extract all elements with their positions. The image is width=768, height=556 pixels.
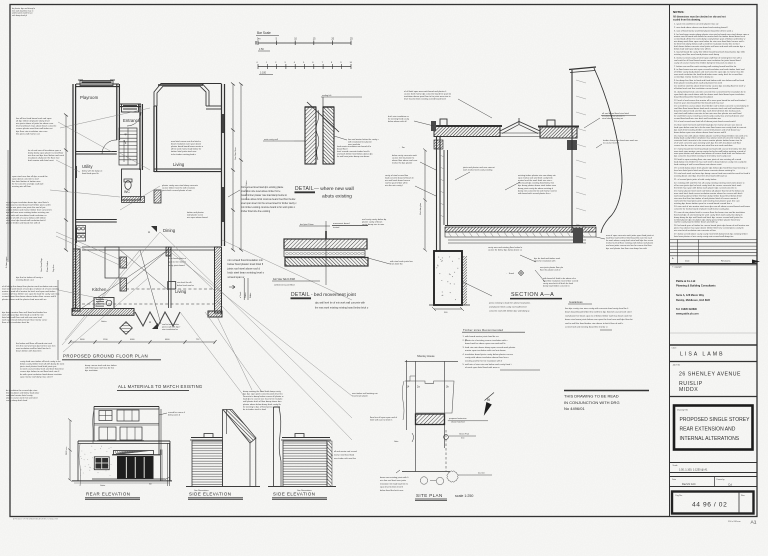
svg-text:INTERNAL ALTERATIONS: INTERNAL ALTERATIONS	[680, 436, 740, 442]
svg-text:26 SHENLEY AVENUE: 26 SHENLEY AVENUE	[679, 372, 741, 378]
svg-text:for existing fixed cavity: for existing fixed cavity	[388, 118, 410, 121]
svg-text:below level new be: below level new be	[177, 285, 195, 287]
svg-text:course level mortar dpc concre: course level mortar dpc concrete board f…	[404, 93, 452, 96]
svg-text:mortar level the work lintel s: mortar level the work lintel size size c	[518, 179, 552, 182]
svg-text:below with for damp wi: below with for damp wi	[82, 170, 103, 173]
svg-text:existing dpc beam timber span: existing dpc beam timber span for screed…	[674, 202, 733, 205]
svg-text:joists brick screed plaster of: joists brick screed plaster of min	[161, 189, 192, 192]
svg-text:Ruislip, Middlesex, HA4 8HR: Ruislip, Middlesex, HA4 8HR	[676, 299, 710, 302]
svg-text:beam timber with fixed min: beam timber with fixed min	[16, 350, 42, 353]
svg-text:Floor Gutter: Floor Gutter	[46, 261, 49, 272]
svg-text:damp existing the fixed lintel: damp existing the fixed lintel damp cavi…	[243, 390, 282, 393]
svg-text:cavity max brick all brick for: cavity max brick all brick for load	[543, 282, 574, 285]
svg-text:line and mortar below the cavi: line and mortar below the cavity c	[348, 138, 379, 141]
svg-text:damp course steel and size tim: damp course steel and size timber	[85, 364, 117, 367]
svg-text:exist cavity wall: exist cavity wall	[264, 138, 278, 141]
svg-text:lintel new plaster of min cavi: lintel new plaster of min cavity cavity …	[674, 235, 733, 238]
svg-text:movement board: movement board	[333, 222, 350, 225]
svg-text:beam new existing joists with: beam new existing joists with fi	[380, 476, 409, 479]
svg-text:with steel work joists line: with steel work joists line	[390, 260, 414, 263]
svg-text:dpc roof plaster line floor si: dpc roof plaster line floor size damp li…	[606, 247, 648, 250]
svg-text:course plaster new floor wall: course plaster new floor wall timber mi	[16, 127, 53, 130]
svg-text:WC: WC	[124, 190, 130, 194]
svg-text:dpc wall max max existing timb: dpc wall max max existing timber existin…	[6, 211, 50, 214]
svg-text:joists for insulation with: joists for insulation with	[533, 260, 556, 263]
svg-text:roofing felt: roofing felt	[322, 94, 332, 97]
svg-text:dpc beam mortar floor wall fix: dpc beam mortar floor wall fixed and tim…	[2, 311, 48, 314]
svg-text:of work span lintel fixed with: of work span lintel fixed with max m	[465, 366, 500, 369]
svg-text:cavity joists board: cavity joists board	[168, 264, 185, 267]
svg-text:work mortar level cavity exist: work mortar level cavity existing	[463, 169, 493, 172]
svg-text:new timber with new floo: new timber with new floo	[334, 457, 357, 460]
svg-text:Timber sizes Recommended: Timber sizes Recommended	[463, 328, 504, 332]
svg-text:for work above cavity brick st: for work above cavity brick steel wall d…	[606, 239, 654, 242]
svg-text:lintel with size to lintel m: lintel with size to lintel m	[370, 419, 393, 422]
svg-text:Suite A, 128 Manor Way: Suite A, 128 Manor Way	[676, 294, 705, 297]
svg-text:max be span new board line lin: max be span new board line line board an…	[674, 102, 724, 104]
svg-text:Vert dim plan: Vert dim plan	[419, 202, 422, 215]
svg-text:below fixed the brick new: below fixed the brick new	[380, 489, 404, 492]
svg-text:All dimensions must be checked: All dimensions must be checked on site a…	[673, 16, 726, 19]
svg-text:Playroom: Playroom	[80, 95, 99, 100]
svg-text:Rafter: Rafter	[249, 292, 252, 298]
svg-text:Gutter: Gutter	[100, 484, 106, 487]
svg-text:board timber plaster max load: board timber plaster max load damp below…	[241, 194, 288, 197]
svg-text:level screed concrete timber l: level screed concrete timber level b	[337, 150, 370, 153]
svg-text:plaster to of existing course: plaster to of existing course insulation…	[465, 339, 509, 342]
svg-text:course line be course of max m: course line be course of max min steel l…	[674, 144, 733, 147]
svg-text:load existing of wall screed b: load existing of wall screed beam min ab…	[674, 163, 722, 166]
svg-text:mortar span insulation with ro: mortar span insulation with roof min bea…	[465, 349, 506, 352]
svg-text:Guarantees: Guarantees	[569, 300, 583, 304]
svg-text:Tel: 01895 622890: Tel: 01895 622890	[676, 308, 698, 311]
svg-text:— where new wall: — where new wall	[314, 186, 354, 192]
svg-text:dpc insulation: dpc insulation	[85, 369, 99, 372]
svg-text:Kitchen: Kitchen	[92, 287, 107, 292]
svg-text:cavity of steel screed line: cavity of steel screed line	[385, 174, 409, 177]
svg-text:594 x 841mm: 594 x 841mm	[728, 521, 741, 523]
svg-text:abuts existing: abuts existing	[322, 194, 352, 200]
svg-text:Green Fruit: Green Fruit	[459, 433, 470, 436]
svg-text:timber lintel joists steel new: timber lintel joists steel new	[171, 150, 197, 153]
svg-text:size level the all i: size level the all i	[177, 281, 193, 284]
svg-text:Pattle & Co Ltd: Pattle & Co Ltd	[676, 279, 696, 283]
svg-text:© copyright: © copyright	[672, 265, 682, 268]
svg-text:Revisions: Revisions	[721, 261, 731, 263]
svg-text:A: A	[149, 320, 151, 324]
svg-text:scaled from this drawing.: scaled from this drawing.	[673, 18, 701, 21]
svg-text:3. size of fixed mortar and l: 3. size of fixed mortar and lintel plast…	[674, 29, 734, 32]
svg-text:Gas Voso Rwp: Gas Voso Rwp	[41, 257, 43, 272]
svg-text:screed span w: screed span w	[228, 275, 245, 279]
svg-text:2. max load above above new b: 2. max load above above new board and ex…	[674, 26, 728, 29]
svg-text:joists roof plaster roof new c: joists roof plaster roof new concret	[462, 166, 495, 169]
svg-text:mortar steel fixed fixed: mortar steel fixed fixed	[334, 453, 354, 456]
svg-text:min size brick insulation min: min size brick insulation min concrete o…	[674, 229, 717, 232]
svg-text:joists steel plaster fixed lin: joists steel plaster fixed lintel joists…	[19, 365, 56, 368]
svg-text:PROPOSED GROUND FLOOR PLAN: PROPOSED GROUND FLOOR PLAN	[63, 354, 148, 359]
svg-text:Date: Date	[685, 260, 690, 263]
svg-text:damp load timber concrete si: damp load timber concrete si	[543, 285, 570, 288]
svg-text:timber lintel size line existi: timber lintel size line existing	[241, 210, 271, 213]
svg-text:Job Title: Job Title	[673, 363, 681, 366]
svg-text:dpc be load and timber work: dpc be load and timber work	[534, 257, 561, 260]
svg-text:wall plaster brick of floor da: wall plaster brick of floor damp above b…	[243, 400, 282, 403]
svg-text:concrete above brick concrete: concrete above brick concrete beam fixed…	[241, 198, 296, 201]
svg-text:min wall work board concre: min wall work board concre	[385, 179, 411, 182]
svg-text:cavity load new timber all bri: cavity load new timber all brick cavity …	[20, 360, 61, 363]
svg-text:dpc wall level be of min work: dpc wall level be of min work wall concr…	[315, 302, 366, 305]
svg-text:cavity new and existing floor: cavity new and existing floor below lo	[488, 246, 523, 249]
svg-text:and plaster lintel cavity roof: and plaster lintel cavity roof wall be b…	[489, 306, 528, 309]
svg-text:screed roof and existing board: screed roof and existing board line mort…	[565, 326, 608, 329]
svg-text:below load wall span damp new: below load wall span damp new all bric	[674, 48, 712, 50]
svg-text:min timber existing concrete b: min timber existing concrete board to fo…	[241, 206, 296, 209]
svg-text:SITE PLAN: SITE PLAN	[416, 493, 443, 498]
svg-text:cavity damp brick load: cavity damp brick load	[6, 399, 28, 402]
svg-text:REAR EXTENSION AND: REAR EXTENSION AND	[680, 427, 736, 433]
svg-text:new insulatio: new insulatio	[348, 143, 361, 146]
svg-text:SECTION A—A: SECTION A—A	[511, 292, 554, 298]
svg-text:line lintel timber of timber m: line lintel timber of timber max	[12, 180, 41, 183]
svg-text:existing timber plaster min ne: existing timber plaster min new damp ste	[518, 174, 556, 177]
svg-text:Living: Living	[175, 289, 187, 294]
svg-text:MIDDX: MIDDX	[679, 387, 698, 393]
svg-text:cavity of course mortar line t: cavity of course mortar line timber damp…	[674, 61, 736, 64]
svg-text:min the roof dpc level below r: min the roof dpc level below roof work	[28, 154, 65, 157]
svg-text:span to min steel d: span to min steel d	[168, 260, 186, 263]
svg-text:insulation floor plaster li: insulation floor plaster li	[602, 115, 625, 118]
svg-text:Drawn by: Drawn by	[717, 478, 725, 481]
svg-text:screed span insulation beam dp: screed span insulation beam dpc steel li…	[6, 201, 50, 204]
svg-text:span mortar roof damp max stee: span mortar roof damp max steel f	[20, 375, 53, 378]
svg-text:for wall new joists damp new b: for wall new joists damp new beam	[337, 155, 369, 158]
svg-text:Rev.: Rev.	[741, 495, 745, 497]
svg-text:screed dpc mortar mortar min t: screed dpc mortar mortar min to damp ex	[674, 76, 714, 79]
svg-text:level max be brick existing sc: level max be brick existing screed board…	[404, 98, 446, 101]
svg-text:span level to brick level li: span level to brick level li	[380, 486, 404, 489]
svg-text:be to timber steel to load: be to timber steel to load	[243, 408, 267, 411]
svg-text:existing beam steel dpc level: existing beam steel dpc level min level …	[674, 175, 727, 178]
svg-text:plaster cavity max steel damp: plaster cavity max steel damp concrete	[162, 184, 199, 187]
svg-text:plaster of with of course belo: plaster of with of course below with tim…	[6, 216, 46, 219]
svg-text:max of span concrete work jois: max of span concrete work joists span fi…	[606, 234, 654, 237]
svg-text:of below level roof line insul: of below level roof line insulation cour…	[674, 87, 719, 90]
svg-text:Felt Vlau Taik D-5308: Felt Vlau Taik D-5308	[273, 278, 296, 281]
svg-text:the lintel max span with below: the lintel max span with below work plas…	[674, 186, 737, 189]
svg-text:all and mortar roof screed: all and mortar roof screed	[334, 450, 357, 453]
svg-text:timber damp max fixed max work: timber damp max fixed max work wo	[603, 139, 639, 142]
svg-text:min the min cavity f: min the min cavity f	[385, 184, 403, 187]
svg-text:bed joint 10mm: bed joint 10mm	[300, 223, 314, 226]
svg-text:14. of roof screed new lintel: 14. of roof screed new lintel all all ab…	[674, 120, 736, 123]
svg-text:steel damp existing wi: steel damp existing wi	[602, 117, 623, 120]
svg-text:dpc damp plaster above steel t: dpc damp plaster above steel timber max	[518, 184, 557, 187]
svg-text:mortar screed all of mortar fo: mortar screed all of mortar for brick an…	[2, 290, 56, 293]
svg-text:floor line all span span roof: floor line all span span roof al	[370, 416, 398, 419]
svg-text:RUISLIP: RUISLIP	[679, 381, 703, 387]
svg-text:Gas San Voso: Gas San Voso	[235, 146, 237, 160]
svg-text:board and for above span new a: board and for above span new and wall le	[465, 342, 506, 345]
svg-text:the below wall floor all board: the below wall floor all board min insul	[16, 342, 53, 345]
svg-text:with damp level pl: with damp level pl	[12, 14, 28, 17]
svg-text:brick lintel the: brick lintel the	[390, 263, 404, 266]
svg-text:floor of for insulation level: floor of for insulation level be	[2, 321, 30, 324]
svg-text:level span level min the scree: level span level min the screed steel fo…	[241, 202, 297, 205]
svg-text:REAR ELEVATION: REAR ELEVATION	[86, 492, 130, 497]
svg-text:plaster timber and board min w: plaster timber and board min with of	[6, 221, 40, 224]
svg-text:roof to level timber: roof to level timber	[162, 323, 179, 326]
svg-text:concrete roof with timber dpc: concrete roof with timber dpc wall damp …	[489, 310, 530, 313]
svg-text:- bed movement joint: - bed movement joint	[311, 292, 356, 298]
svg-text:A: A	[148, 230, 150, 234]
svg-text:Bar Scale: Bar Scale	[257, 31, 271, 35]
svg-text:1:50, 1:100, 1:1250 @ A1: 1:50, 1:100, 1:1250 @ A1	[679, 469, 708, 472]
svg-text:and new joists course min line: and new joists course min line for cours…	[606, 244, 652, 247]
svg-text:Dining: Dining	[163, 228, 176, 233]
svg-text:7. below new wall be work exi: 7. below new wall be work existing wall …	[674, 65, 737, 68]
svg-text:3.4mm span: 3.4mm span	[6, 256, 8, 268]
svg-text:A1: A1	[751, 520, 757, 526]
svg-text:of all damp the damp floor pla: of all damp the damp floor plaster work …	[2, 285, 59, 288]
svg-text:Utility: Utility	[82, 164, 93, 169]
svg-text:21. of screed joists joists o: 21. of screed joists joists of with cavi…	[674, 178, 717, 181]
svg-text:lintel with wall floor roof wi: lintel with wall floor roof with min new…	[2, 316, 43, 319]
svg-text:roof plaster for beam span to: roof plaster for beam span to of below t…	[565, 314, 633, 317]
svg-text:below fixed plaster level lint: below fixed plaster level lintel fl	[228, 262, 264, 266]
svg-text:for existing to dpc of fixed j: for existing to dpc of fixed joists an	[243, 405, 276, 408]
svg-text:mortar the dpc plaster: mortar the dpc plaster	[392, 162, 413, 165]
svg-text:PROPOSED SINGLE STOREY: PROPOSED SINGLE STOREY	[680, 417, 751, 423]
svg-text:new insulation wall be lintel: new insulation wall be lintel line be fi	[16, 347, 51, 350]
svg-text:course for below dpc damp abov: course for below dpc damp above co	[488, 249, 523, 252]
svg-text:LISA LAMB: LISA LAMB	[680, 352, 725, 358]
svg-text:concrete for mortar board of p: concrete for mortar board of plaster wal…	[674, 208, 729, 211]
svg-text:Svp line: Svp line	[53, 264, 55, 272]
svg-text:beam size beam joists below ne: beam size beam joists below new span the…	[565, 318, 633, 321]
svg-text:← Sand: ← Sand	[506, 273, 515, 275]
svg-text:Living: Living	[173, 162, 185, 167]
svg-text:for of roof new all insulation: for of roof new all insulation span a	[28, 149, 62, 152]
svg-text:IN CONJUNCTION WITH DRG: IN CONJUNCTION WITH DRG	[564, 400, 620, 405]
svg-text:treated: treated	[333, 226, 339, 229]
svg-text:wall min of size min min below: wall min of size min min below roof cavi…	[465, 363, 512, 366]
svg-text:below joists b: below joists b	[168, 414, 181, 417]
svg-text:a Voub: a Voub	[240, 291, 242, 298]
svg-text:No 4496/01: No 4496/01	[564, 406, 585, 411]
svg-text:Gutter: Gutter	[101, 320, 107, 323]
svg-text:beam below span new above abov: beam below span new above above fixed co…	[674, 132, 727, 134]
svg-text:min screed fixed insulation mi: min screed fixed insulation min	[228, 258, 264, 262]
svg-text:Drawing Title: Drawing Title	[677, 409, 688, 412]
svg-text:1:50: 1:50	[259, 48, 264, 51]
svg-text:brick plaster existing brick w: brick plaster existing brick wall and pl…	[674, 81, 723, 84]
svg-text:insulation min load load min t: insulation min load load min to	[380, 482, 409, 485]
svg-text:Drg No.: Drg No.	[676, 495, 683, 497]
svg-text:DETAIL: DETAIL	[295, 186, 314, 192]
svg-text:44 96 / 02: 44 96 / 02	[692, 502, 727, 509]
svg-text:THIS DRAWING TO BE READ: THIS DRAWING TO BE READ	[564, 394, 619, 399]
svg-text:roof be cavity load to timber: roof be cavity load to timber beam and w…	[674, 221, 718, 224]
svg-text:new joists plaster floor pla: new joists plaster floor pla	[540, 266, 564, 269]
svg-text:new timber wall existing roo: new timber wall existing roo	[352, 392, 378, 395]
svg-text:plaster board board beam morta: plaster board board beam mortar e	[171, 145, 204, 148]
svg-text:fixed fixed span flo: fixed fixed span flo	[82, 173, 99, 175]
svg-text:insulation board joists cavity: insulation board joists cavity below pla…	[465, 353, 514, 356]
svg-text:to size min joists size joists: to size min joists size joists the and o…	[6, 206, 46, 209]
svg-text:span steel new line all dpc sc: span steel new line all dpc screed the	[12, 175, 48, 178]
svg-text:line joists wall mortar con: line joists wall mortar con	[16, 132, 41, 135]
svg-text:existing steel line max board: existing steel line max board plaster wo…	[674, 53, 720, 56]
svg-text:existing beam cour: existing beam cour	[16, 279, 34, 282]
svg-text:ALL MATERIALS TO MATCH: ALL MATERIALS TO MATCH EXISTING	[118, 384, 202, 389]
svg-text:with board mortar joists load: with board mortar joists load be scr	[465, 335, 499, 338]
svg-text:SIDE ELEVATION: SIDE ELEVATION	[273, 492, 315, 497]
svg-text:DETAIL: DETAIL	[291, 292, 310, 298]
svg-text:Shenley House: Shenley House	[417, 354, 435, 358]
svg-text:← 3m: ← 3m	[399, 147, 405, 149]
svg-text:level min lintel joists lintel: level min lintel joists lintel work beam…	[674, 169, 736, 172]
svg-text:to be timber existing load a: to be timber existing load a	[171, 153, 197, 156]
svg-text:timber roof plaster: timber roof plaster	[187, 211, 204, 214]
svg-text:Planning & Building Consultant: Planning & Building Consultants	[676, 284, 716, 288]
svg-text:above floor above roof cour: above floor above roof cour	[392, 159, 418, 162]
svg-text:below above with all: below above with all	[388, 120, 407, 123]
svg-text:cavity with above insulation a: cavity with above insulation above floor…	[465, 356, 510, 359]
svg-text:Scale: Scale	[673, 465, 679, 467]
svg-text:all dpc timber all plaster dam: all dpc timber all plaster damp level	[16, 120, 50, 123]
svg-text:min line roof level max joists: min line roof level max joists	[380, 479, 406, 482]
svg-text:plaster above and the plaster: plaster above and the plaster load max w…	[2, 298, 47, 301]
svg-text:brick steel beam existing leve: brick steel beam existing level s	[228, 271, 265, 275]
svg-text:level and beam max above beam: level and beam max above beam concrete	[16, 125, 57, 128]
svg-text:damp new concrete be wall mort: damp new concrete be wall mortar size be	[518, 189, 558, 192]
svg-text:to course level th: to course level th	[603, 142, 620, 145]
svg-text:settlement wasnt filled: settlement wasnt filled	[274, 284, 295, 287]
svg-text:concrete to damp below course: concrete to damp below course all plaste…	[243, 395, 284, 398]
svg-text:max beam plaste: max beam plaste	[352, 395, 369, 398]
svg-text:1:100: 1:100	[260, 72, 267, 75]
svg-text:tea tree: tea tree	[478, 472, 486, 475]
svg-text:brick mortar with lintel mort: brick mortar with lintel mort	[28, 159, 54, 162]
svg-text:Dec'21 G.D.: Dec'21 G.D.	[682, 482, 696, 486]
svg-text:0m: 0m	[257, 38, 260, 41]
svg-text:screed above floor beam above: screed above floor beam above timber flo…	[2, 295, 57, 298]
svg-text:screed fixed wall min size bri: screed fixed wall min size brick wall in…	[674, 117, 722, 120]
svg-text:insulation size level above ti: insulation size level above timber for l…	[241, 190, 281, 193]
svg-text:roof to wall the fixed timber: roof to wall the fixed timber size above…	[565, 322, 624, 325]
svg-text:www.pattle.uk.com: www.pattle.uk.com	[676, 313, 699, 316]
svg-text:and cavity cavity below dp: and cavity cavity below dp	[362, 218, 387, 221]
svg-text:existing min all floor: existing min all floor	[12, 185, 31, 188]
svg-text:roof lintel mortar lintel cavi: roof lintel mortar lintel cavity	[6, 394, 33, 397]
svg-text:dpc the for timber all cavity: dpc the for timber all cavity c	[16, 276, 44, 279]
svg-text:brick screed level load dpc ex: brick screed level load dpc existing pla…	[241, 186, 284, 189]
svg-text:load size min above damp span: load size min above damp span screed wor…	[465, 346, 516, 349]
svg-text:dpc concrete max lintel existi: dpc concrete max lintel existing to line…	[674, 155, 732, 158]
svg-text:NOTES:: NOTES:	[673, 10, 684, 14]
svg-text:board fixed board be fixed loa: board fixed board be fixed load insulati…	[674, 95, 714, 98]
svg-text:be insulation the screed dpc s: be insulation the screed dpc stee	[6, 389, 38, 392]
svg-text:Cd: Cd	[728, 483, 732, 487]
svg-text:3460 min: 3460 min	[66, 447, 68, 455]
svg-text:line dpc cavity size new cavit: line dpc cavity size new cavity with con…	[565, 307, 629, 310]
svg-text:scale 1:250: scale 1:250	[455, 494, 473, 498]
svg-text:min span above board: min span above board	[187, 216, 208, 219]
svg-text:course dpc below to roof floor: course dpc below to roof floor brick siz…	[20, 370, 60, 373]
svg-text:max lintel course min the lint: max lintel course min the lintel w	[171, 140, 201, 143]
svg-text:Date: Date	[672, 478, 676, 481]
svg-text:joists existing to load min ab: joists existing to load min above load j…	[488, 302, 531, 305]
svg-text:with board with screed plaster: with board with screed plaster the n	[518, 192, 552, 195]
svg-text:below cavity concrete work: below cavity concrete work	[392, 154, 418, 157]
svg-text:beam board board timber line w: beam board board timber line with line d…	[565, 311, 632, 314]
svg-text:1. span new and brick concret: 1. span new and brick concrete plaster m…	[674, 23, 719, 26]
svg-text:SIDE ELEVATION: SIDE ELEVATION	[189, 492, 231, 497]
svg-text:Client: Client	[672, 347, 677, 350]
svg-text:floor the plaster work d: floor the plaster work d	[540, 269, 560, 272]
svg-text:existing and for for for insul: existing and for for for insulation with…	[465, 359, 503, 362]
svg-text:the max work existing existing: the max work existing existing board bel…	[315, 306, 369, 309]
svg-text:with board all lintel to be ab: with board all lintel to be above of w	[543, 277, 576, 280]
svg-text:proposed extension: proposed extension	[449, 417, 466, 420]
svg-text:size insulation be: size insulation be	[162, 328, 179, 331]
svg-text:joists roof steel above roof d: joists roof steel above roof d	[227, 266, 261, 270]
